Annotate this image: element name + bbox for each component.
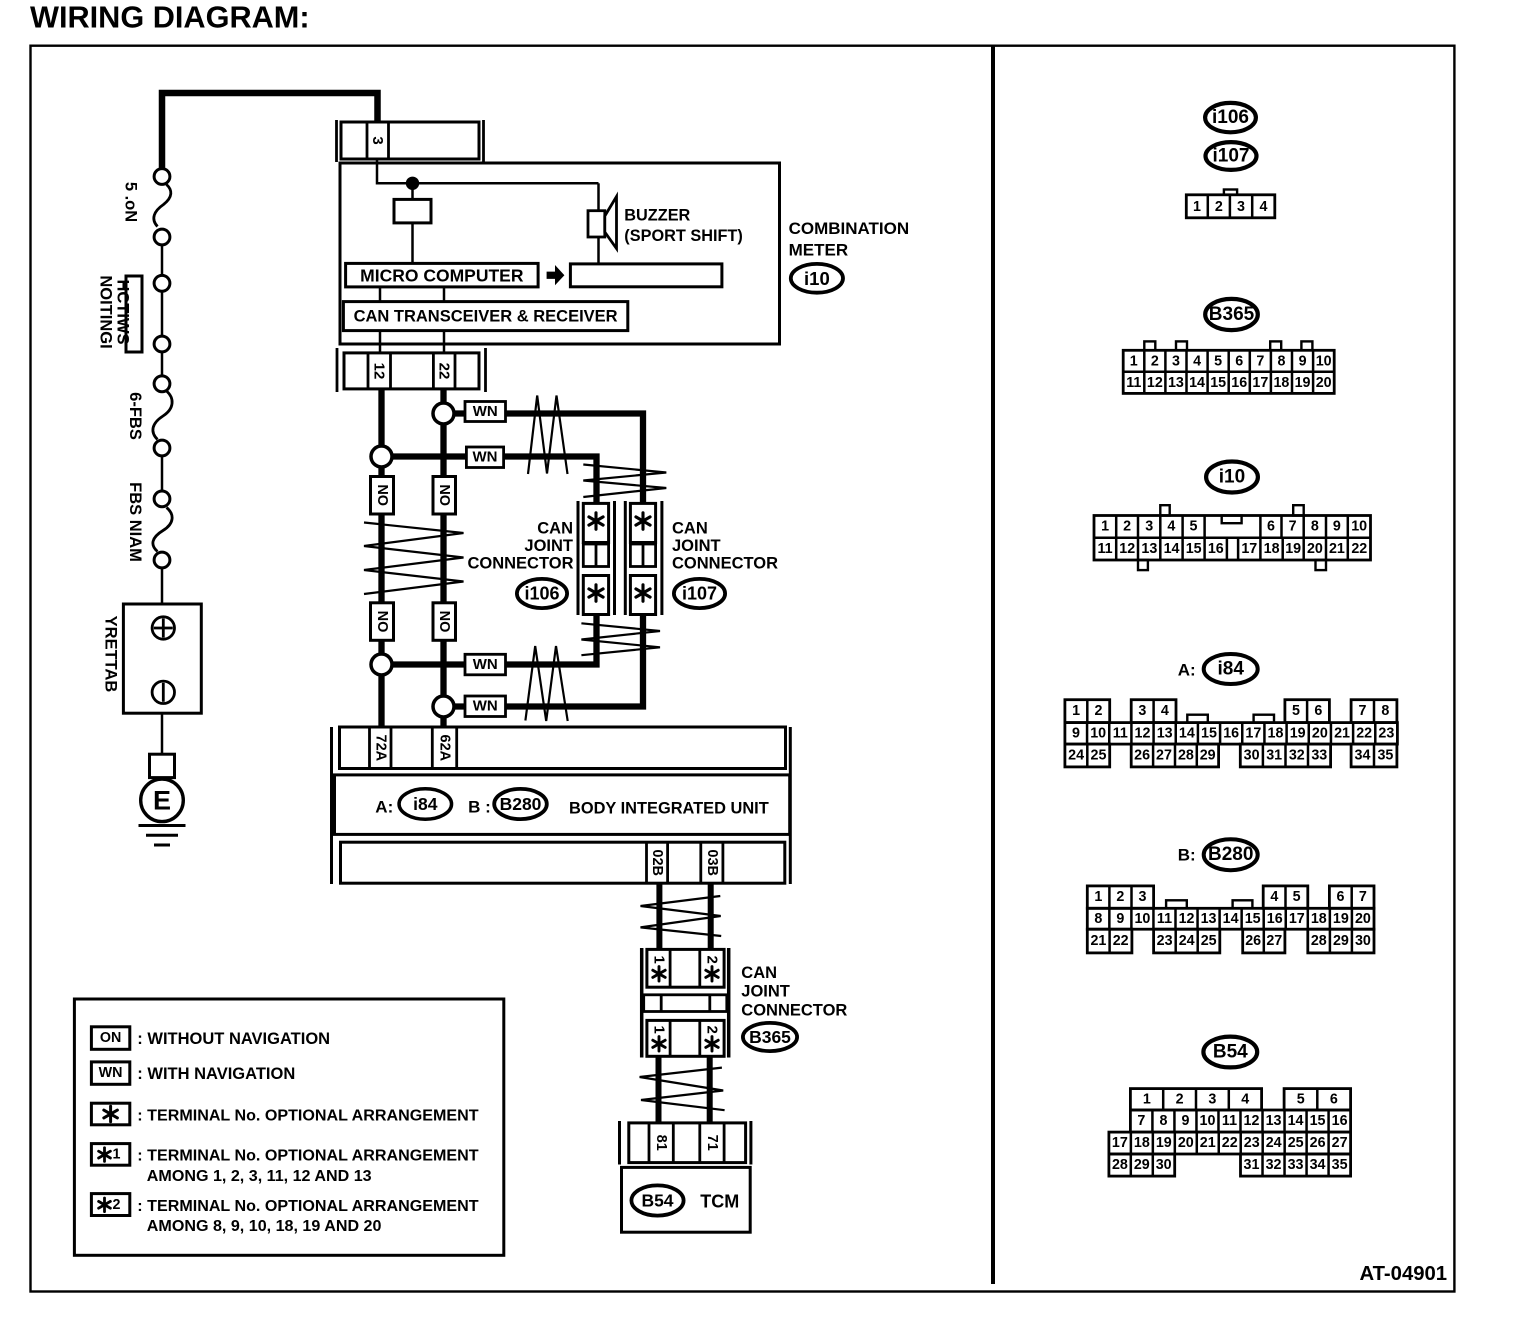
WN box — [465, 402, 506, 422]
svg-text:10: 10 — [1316, 353, 1332, 369]
svg-text:4: 4 — [1193, 353, 1201, 369]
legend box — [74, 999, 503, 1255]
svg-text:24: 24 — [1266, 1135, 1282, 1151]
svg-text:24: 24 — [1068, 748, 1084, 764]
svg-text:9: 9 — [1181, 1113, 1189, 1129]
svg-text:14: 14 — [1223, 911, 1239, 927]
svg-text:2: 2 — [1151, 353, 1159, 369]
connector label B54 — [631, 1185, 683, 1215]
svg-text:23: 23 — [1378, 725, 1394, 741]
wire — [161, 457, 164, 491]
buzzer (sport shift) — [597, 183, 600, 210]
svg-text:: WITHOUT NAVIGATION: : WITHOUT NAVIGATION — [137, 1030, 330, 1048]
svg-text:HCTIWS: HCTIWS — [114, 279, 132, 344]
svg-text:4: 4 — [1241, 1091, 1249, 1107]
svg-text:JOINT: JOINT — [524, 537, 573, 555]
svg-text:26: 26 — [1245, 933, 1261, 949]
svg-text:6: 6 — [1330, 1091, 1338, 1107]
wire — [161, 353, 164, 376]
svg-text:18: 18 — [1273, 375, 1289, 391]
svg-text:JOINT: JOINT — [741, 983, 790, 1001]
svg-text:NO: NO — [374, 484, 390, 506]
svg-text:CAN TRANSCEIVER & RECEIVER: CAN TRANSCEIVER & RECEIVER — [354, 307, 618, 325]
svg-text:10: 10 — [1351, 519, 1367, 535]
svg-text:3: 3 — [369, 136, 386, 144]
svg-text:14: 14 — [1179, 725, 1195, 741]
svg-text:27: 27 — [1332, 1135, 1348, 1151]
svg-text:1: 1 — [651, 956, 668, 964]
wire WN2 (thick) — [390, 453, 466, 459]
svg-text:6-FBS: 6-FBS — [126, 392, 144, 440]
svg-text:5: 5 — [1293, 889, 1301, 905]
ON box — [433, 477, 456, 515]
svg-text:NOITINGI: NOITINGI — [97, 275, 115, 348]
svg-text:NO: NO — [436, 484, 452, 506]
svg-text:30: 30 — [1355, 933, 1371, 949]
svg-text:B280: B280 — [500, 794, 542, 814]
wire — [378, 467, 384, 478]
CAN joint connector i106 — [577, 501, 580, 615]
buzzer output box — [570, 264, 722, 287]
svg-text:2: 2 — [704, 1026, 721, 1034]
wire — [161, 713, 164, 754]
svg-text:2: 2 — [704, 956, 721, 964]
svg-text:3: 3 — [1138, 703, 1146, 719]
svg-text:5: 5 — [1214, 353, 1222, 369]
svg-text:3: 3 — [1145, 519, 1153, 535]
svg-text:22: 22 — [1222, 1135, 1238, 1151]
svg-text:26: 26 — [1310, 1135, 1326, 1151]
svg-text:17: 17 — [1241, 541, 1257, 557]
wire — [443, 331, 446, 353]
svg-text:12: 12 — [1244, 1113, 1260, 1129]
wire pin 22 (thick) — [440, 389, 446, 405]
svg-text:22: 22 — [436, 363, 453, 380]
svg-text:CONNECTOR: CONNECTOR — [741, 1002, 847, 1020]
svg-text:BODY INTEGRATED UNIT: BODY INTEGRATED UNIT — [569, 799, 769, 817]
svg-text:30: 30 — [1156, 1157, 1172, 1173]
twisted pair mark — [528, 396, 568, 475]
svg-text:9: 9 — [1116, 911, 1124, 927]
fuse SBF-6 — [153, 391, 172, 440]
svg-text:25: 25 — [1091, 748, 1107, 764]
svg-text:21: 21 — [1334, 725, 1350, 741]
svg-text:NO: NO — [436, 611, 452, 633]
ON box — [371, 477, 394, 515]
svg-text:8: 8 — [1277, 353, 1285, 369]
node circle — [154, 229, 170, 245]
twisted pair mark — [364, 523, 464, 595]
wire — [379, 287, 382, 302]
svg-text:19: 19 — [1285, 541, 1301, 557]
wire (thick) — [656, 1056, 662, 1123]
svg-text:17: 17 — [1289, 911, 1305, 927]
svg-text:21: 21 — [1090, 933, 1106, 949]
junction circle — [433, 696, 454, 717]
svg-text:11: 11 — [1113, 725, 1128, 741]
svg-text:1: 1 — [651, 1026, 668, 1034]
svg-text:15: 15 — [1186, 541, 1202, 557]
wire from pin 3 — [377, 159, 599, 183]
arrow — [547, 265, 565, 285]
svg-text:12: 12 — [1179, 911, 1195, 927]
svg-text:16: 16 — [1231, 375, 1247, 391]
pinout i106/i107 4-pin — [1224, 190, 1237, 195]
battery — [123, 604, 201, 713]
svg-text:29: 29 — [1333, 933, 1349, 949]
wire — [411, 189, 414, 199]
body integrated unit connector A row — [330, 727, 333, 884]
node circle — [154, 376, 170, 392]
svg-text:WN: WN — [99, 1065, 123, 1081]
svg-text:18: 18 — [1264, 541, 1280, 557]
node circle — [154, 275, 170, 291]
svg-text:5 .oN: 5 .oN — [122, 182, 140, 222]
svg-text:27: 27 — [1266, 933, 1282, 949]
svg-text:CAN: CAN — [672, 520, 708, 538]
svg-text:ON: ON — [100, 1030, 121, 1046]
svg-text:22: 22 — [1356, 725, 1372, 741]
svg-text:B:: B: — [1178, 846, 1196, 865]
pinout B365 20-pin — [1144, 341, 1155, 350]
node circle — [154, 440, 170, 456]
svg-text:30: 30 — [1244, 748, 1260, 764]
svg-text:29: 29 — [1134, 1157, 1150, 1173]
svg-text:8: 8 — [1159, 1113, 1167, 1129]
svg-text:i84: i84 — [1217, 659, 1244, 680]
svg-text:35: 35 — [1332, 1157, 1348, 1173]
micro computer box — [346, 263, 538, 287]
svg-text:B365: B365 — [1209, 304, 1255, 325]
wire WN1 (thick) — [444, 410, 466, 416]
svg-text:2: 2 — [113, 1197, 121, 1213]
svg-text:13: 13 — [1157, 725, 1173, 741]
connector i10 pin 3 box — [335, 120, 338, 162]
svg-text:2: 2 — [1123, 519, 1131, 535]
svg-text:13: 13 — [1141, 541, 1157, 557]
svg-text:17: 17 — [1245, 725, 1261, 741]
fuse No. 5 — [154, 185, 171, 227]
svg-text:A:: A: — [375, 797, 393, 816]
svg-text:8: 8 — [1381, 703, 1389, 719]
body integrated unit box — [335, 775, 790, 835]
svg-text:16: 16 — [1267, 911, 1283, 927]
svg-text:3: 3 — [1237, 199, 1245, 215]
pinout B54 35-pin — [1130, 1089, 1261, 1110]
svg-text:1: 1 — [1143, 1091, 1151, 1107]
svg-text:34: 34 — [1310, 1157, 1326, 1173]
CAN joint connector B365 — [640, 948, 644, 1058]
svg-text:5: 5 — [1297, 1091, 1305, 1107]
svg-text:33: 33 — [1288, 1157, 1304, 1173]
svg-text:AMONG 8, 9, 10, 18, 19 AND 20: AMONG 8, 9, 10, 18, 19 AND 20 — [147, 1217, 382, 1235]
svg-text:AMONG 1, 2, 3, 11, 12 AND 13: AMONG 1, 2, 3, 11, 12 AND 13 — [147, 1167, 372, 1185]
svg-text:: TERMINAL No. OPTIONAL ARRANG: : TERMINAL No. OPTIONAL ARRANGEMENT — [137, 1106, 478, 1124]
svg-text:12: 12 — [1135, 725, 1151, 741]
connector label i10 — [791, 264, 843, 293]
svg-text:AT-04901: AT-04901 — [1360, 1263, 1448, 1285]
fuse MAIN SBF — [153, 508, 172, 552]
svg-text:6: 6 — [1314, 703, 1322, 719]
svg-text:A:: A: — [1178, 660, 1196, 679]
svg-text:17: 17 — [1112, 1135, 1128, 1151]
pinout i10 22-pin — [1160, 505, 1169, 515]
svg-text:1: 1 — [1193, 199, 1201, 215]
wire — [161, 292, 164, 336]
svg-text:12: 12 — [371, 363, 388, 380]
svg-text:8: 8 — [1311, 519, 1319, 535]
svg-text:4: 4 — [1260, 199, 1268, 215]
svg-text:i107: i107 — [1213, 146, 1250, 167]
wire — [378, 640, 384, 655]
svg-text:15: 15 — [1310, 1113, 1326, 1129]
wire WN4 (thick) — [444, 703, 466, 709]
svg-text:5: 5 — [1189, 519, 1197, 535]
wire B30 (thick) — [708, 883, 714, 950]
ground — [139, 824, 186, 827]
svg-text:18: 18 — [1268, 725, 1284, 741]
svg-text:FBS NIAM: FBS NIAM — [126, 482, 144, 562]
svg-text:JOINT: JOINT — [672, 537, 721, 555]
connector label B365 — [1205, 299, 1258, 330]
svg-text:14: 14 — [1164, 541, 1180, 557]
ground terminal square — [150, 754, 175, 777]
svg-text:12: 12 — [1147, 375, 1163, 391]
svg-text:22: 22 — [1113, 933, 1129, 949]
component box — [394, 199, 431, 223]
svg-text:NO: NO — [374, 611, 390, 633]
svg-text:B :: B : — [468, 797, 491, 816]
svg-text:20: 20 — [1312, 725, 1328, 741]
connector label i106 — [1205, 103, 1256, 132]
body integrated unit connector B row — [341, 842, 785, 883]
svg-text:02B: 02B — [649, 849, 665, 876]
svg-text:32: 32 — [1266, 1157, 1282, 1173]
svg-text:11: 11 — [1126, 375, 1141, 391]
junction circle — [433, 403, 454, 424]
pinout B280 30-pin — [1087, 886, 1153, 908]
twisted pair mark — [583, 465, 666, 498]
wire B20 (thick) — [656, 883, 662, 950]
svg-text:16: 16 — [1208, 541, 1224, 557]
svg-text:COMBINATION: COMBINATION — [789, 219, 910, 238]
svg-text:MICRO COMPUTER: MICRO COMPUTER — [360, 266, 524, 286]
svg-text:7: 7 — [1256, 353, 1264, 369]
svg-text:27: 27 — [1156, 748, 1172, 764]
svg-text:18: 18 — [1134, 1135, 1150, 1151]
wire — [161, 246, 164, 275]
node circle — [154, 169, 170, 185]
connector label i106 — [517, 579, 567, 608]
svg-text:23: 23 — [1244, 1135, 1260, 1151]
svg-text:: TERMINAL No. OPTIONAL ARRANG: : TERMINAL No. OPTIONAL ARRANGEMENT — [137, 1147, 478, 1165]
svg-text:19: 19 — [1156, 1135, 1172, 1151]
svg-text:24: 24 — [1179, 933, 1195, 949]
svg-text:29: 29 — [1200, 748, 1216, 764]
svg-text:2: 2 — [1116, 889, 1124, 905]
svg-text:CAN: CAN — [537, 520, 573, 538]
svg-text:7: 7 — [1289, 519, 1297, 535]
svg-text:5: 5 — [1292, 703, 1300, 719]
svg-text:33: 33 — [1311, 748, 1327, 764]
svg-text:WN: WN — [473, 449, 498, 466]
legend WN symbol — [91, 1062, 129, 1084]
svg-text:20: 20 — [1316, 375, 1332, 391]
svg-text:72A: 72A — [372, 734, 388, 761]
svg-text:23: 23 — [1157, 933, 1173, 949]
WN box — [466, 447, 503, 468]
svg-text:11: 11 — [1157, 911, 1172, 927]
pinout i84 35-pin — [1065, 700, 1110, 723]
TCM connector row — [618, 1121, 621, 1165]
svg-text:B54: B54 — [641, 1191, 673, 1211]
wire — [379, 331, 382, 353]
svg-text:81: 81 — [653, 1135, 669, 1151]
svg-text:4: 4 — [1167, 519, 1175, 535]
svg-text:1: 1 — [1101, 519, 1109, 535]
connector i10 pins 21 22 box — [336, 348, 339, 392]
svg-text:10: 10 — [1090, 725, 1106, 741]
junction circle — [371, 446, 392, 467]
svg-text:1: 1 — [113, 1147, 121, 1163]
svg-text:YRETTAB: YRETTAB — [102, 616, 120, 693]
svg-text:7: 7 — [1137, 1113, 1145, 1129]
svg-text:31: 31 — [1244, 1157, 1260, 1173]
svg-text:20: 20 — [1355, 911, 1371, 927]
svg-text:8: 8 — [1094, 911, 1102, 927]
svg-text:WN: WN — [473, 656, 498, 673]
junction circle — [371, 654, 392, 675]
svg-text:21: 21 — [1329, 541, 1345, 557]
wire WN3 (thick) — [390, 661, 465, 667]
svg-text:35: 35 — [1377, 748, 1393, 764]
svg-text:7: 7 — [1359, 703, 1367, 719]
svg-text:25: 25 — [1288, 1135, 1304, 1151]
svg-text:13: 13 — [1168, 375, 1184, 391]
svg-text:6: 6 — [1337, 889, 1345, 905]
ignition switch symbol — [126, 276, 142, 352]
svg-text:20: 20 — [1178, 1135, 1194, 1151]
svg-text:32: 32 — [1289, 748, 1305, 764]
svg-text:13: 13 — [1266, 1113, 1282, 1129]
legend *1 symbol — [91, 1144, 129, 1166]
svg-text:15: 15 — [1245, 911, 1261, 927]
node circle — [154, 491, 170, 507]
svg-text:17: 17 — [1252, 375, 1268, 391]
svg-text:3: 3 — [1139, 889, 1147, 905]
svg-text:B54: B54 — [1213, 1042, 1248, 1063]
wire — [597, 237, 600, 264]
svg-text:4: 4 — [1161, 703, 1169, 719]
svg-text:9: 9 — [1072, 725, 1080, 741]
svg-text:3: 3 — [1172, 353, 1180, 369]
node circle — [154, 336, 170, 352]
svg-text:i106: i106 — [1212, 107, 1249, 128]
connector label i107 — [1206, 142, 1257, 170]
svg-text:B365: B365 — [749, 1027, 791, 1047]
ON box — [433, 603, 456, 641]
ON box — [371, 603, 394, 641]
svg-text:CAN: CAN — [741, 964, 777, 982]
twisted pair mark — [525, 646, 567, 721]
ground circle E — [141, 779, 184, 822]
svg-text:71: 71 — [704, 1135, 720, 1151]
svg-text:19: 19 — [1333, 911, 1349, 927]
svg-text:26: 26 — [1134, 748, 1150, 764]
svg-text:18: 18 — [1311, 911, 1327, 927]
svg-text:BUZZER: BUZZER — [624, 206, 690, 224]
svg-text:62A: 62A — [437, 734, 453, 761]
svg-text:15: 15 — [1201, 725, 1217, 741]
svg-text:: WITH NAVIGATION: : WITH NAVIGATION — [137, 1065, 295, 1083]
wire pin 21 (thick) — [378, 389, 384, 447]
legend *2 symbol — [91, 1194, 129, 1216]
svg-text:31: 31 — [1266, 748, 1282, 764]
connector label B365 — [743, 1023, 797, 1051]
connector label i107 — [674, 579, 725, 608]
wire — [378, 514, 384, 604]
svg-text:2: 2 — [1176, 1091, 1184, 1107]
svg-text:WN: WN — [473, 403, 498, 420]
svg-text:: TERMINAL No. OPTIONAL ARRANG: : TERMINAL No. OPTIONAL ARRANGEMENT — [137, 1197, 478, 1215]
legend ON symbol — [91, 1027, 129, 1050]
twisted pair mark — [641, 896, 722, 936]
connector label B54 — [1203, 1037, 1257, 1068]
TCM box — [622, 1167, 751, 1232]
svg-text:6: 6 — [1235, 353, 1243, 369]
svg-text:i10: i10 — [804, 268, 830, 289]
svg-text:7: 7 — [1359, 889, 1367, 905]
svg-text:21: 21 — [1200, 1135, 1216, 1151]
twisted pair mark — [640, 1068, 725, 1111]
svg-text:16: 16 — [1332, 1113, 1348, 1129]
svg-text:E: E — [153, 785, 171, 815]
svg-text:CONNECTOR: CONNECTOR — [467, 555, 573, 573]
svg-text:(SPORT SHIFT): (SPORT SHIFT) — [624, 227, 742, 245]
svg-text:11: 11 — [1222, 1113, 1237, 1129]
svg-text:2: 2 — [1215, 199, 1223, 215]
connector label i10 — [1206, 462, 1258, 493]
wire — [411, 223, 414, 264]
svg-text:28: 28 — [1112, 1157, 1128, 1173]
svg-text:1: 1 — [1130, 353, 1138, 369]
twisted pair mark — [581, 623, 660, 655]
svg-text:28: 28 — [1178, 748, 1194, 764]
svg-text:i10: i10 — [1219, 467, 1245, 488]
svg-text:9: 9 — [1333, 519, 1341, 535]
svg-text:3: 3 — [1208, 1091, 1216, 1107]
svg-text:i84: i84 — [413, 794, 438, 814]
svg-text:10: 10 — [1200, 1113, 1216, 1129]
junction dot — [406, 177, 419, 190]
CAN joint connector i107 — [624, 501, 627, 615]
svg-text:14: 14 — [1288, 1113, 1304, 1129]
svg-text:28: 28 — [1311, 933, 1327, 949]
svg-text:15: 15 — [1210, 375, 1226, 391]
svg-text:WIRING DIAGRAM:: WIRING DIAGRAM: — [30, 0, 310, 35]
svg-text:13: 13 — [1201, 911, 1217, 927]
svg-text:14: 14 — [1189, 375, 1205, 391]
battery minus terminal — [152, 681, 174, 703]
wire — [378, 675, 384, 727]
svg-text:19: 19 — [1295, 375, 1311, 391]
svg-text:19: 19 — [1290, 725, 1306, 741]
svg-text:12: 12 — [1119, 541, 1135, 557]
svg-text:i107: i107 — [682, 584, 717, 604]
column divider line — [991, 46, 995, 1284]
combination meter box — [340, 163, 780, 344]
CAN transceiver box — [343, 302, 627, 331]
